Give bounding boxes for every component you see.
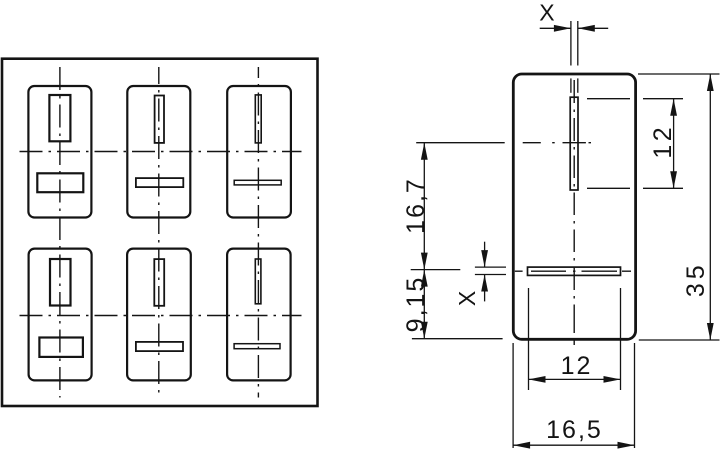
dimension 12 (right, vertical slot length) — [587, 99, 683, 189]
pocket 1 vertical slot — [49, 95, 70, 141]
svg-text:12: 12 — [561, 352, 593, 380]
pocket 1 outline (row1 col1) — [28, 86, 91, 218]
pocket 6 horizontal slot — [234, 344, 280, 349]
pocket 2 outline (row1 col2) — [127, 86, 190, 218]
svg-text:16,7: 16,7 — [402, 177, 430, 234]
pocket 3 vertical slot — [255, 95, 261, 143]
dimension 9,15 (left) — [402, 270, 503, 339]
svg-text:9,15: 9,15 — [402, 276, 430, 333]
centerline row 2 — [20, 315, 302, 317]
horizontal centerline through vertical slot — [523, 142, 591, 144]
centerline column 3 — [257, 67, 259, 398]
centerline column 1 — [59, 67, 61, 398]
dimension 12 (bottom, horizontal slot length) — [529, 288, 621, 390]
horizontal slot — [528, 267, 621, 275]
dimension X (top, slot width) — [539, 0, 608, 93]
pocket outline — [513, 74, 635, 339]
pocket 4 outline (row2 col1) — [29, 249, 92, 381]
svg-text:35: 35 — [682, 261, 710, 297]
pocket 5 vertical slot — [154, 259, 164, 306]
pocket 3 horizontal slot — [234, 180, 281, 185]
svg-text:12: 12 — [649, 124, 677, 159]
pocket 6 vertical slot — [255, 259, 261, 304]
pocket 4 vertical slot — [50, 259, 71, 306]
dimension 35 (overall height) — [638, 74, 720, 340]
dimension 16,7 (left) — [402, 143, 505, 270]
pocket 5 horizontal slot — [136, 342, 183, 351]
pocket 2 horizontal slot — [136, 178, 183, 187]
centerline row 1 — [20, 151, 302, 153]
dimension 16,5 (overall width) — [513, 343, 634, 449]
vertical centerline — [573, 80, 575, 345]
svg-text:X: X — [539, 0, 554, 26]
horizontal centerline through horizontal slot — [515, 270, 631, 272]
vertical slot — [570, 97, 578, 190]
svg-text:16,5: 16,5 — [546, 416, 603, 444]
pocket 4 horizontal slot — [39, 338, 83, 357]
centerline column 2 — [158, 67, 160, 398]
pocket 2 vertical slot — [155, 96, 164, 143]
pocket 3 outline (row1 col3) — [227, 86, 291, 218]
panel outline — [2, 59, 318, 406]
pocket 6 outline (row2 col3) — [227, 249, 291, 381]
pocket 1 horizontal slot — [37, 173, 83, 192]
dimension X (horizontal slot thickness) — [454, 242, 506, 306]
svg-text:X: X — [454, 291, 480, 306]
pocket 5 outline (row2 col2) — [127, 249, 191, 381]
